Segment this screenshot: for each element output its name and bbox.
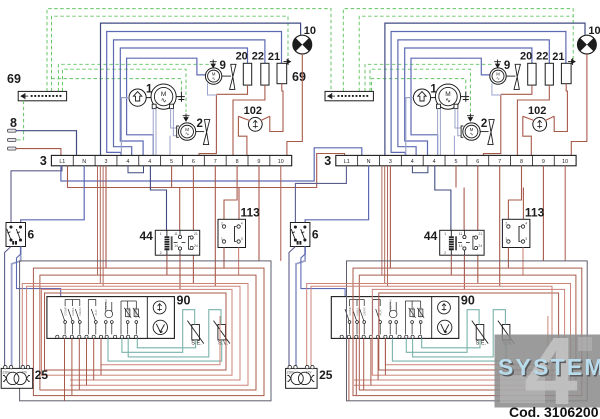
wire strip cell 5 drop' <box>455 166 457 188</box>
earth arrow motor 2 <box>183 114 190 122</box>
svg-text:10: 10 <box>304 25 316 37</box>
svg-text:S.E.: S.E. <box>191 341 202 347</box>
svg-text:∿: ∿ <box>185 133 189 138</box>
svg-text:∿: ∿ <box>496 76 500 81</box>
terminal strip 3' <box>336 155 576 165</box>
wire bundle under cell 3' <box>382 166 388 286</box>
svg-text:FANS: FANS <box>71 308 75 316</box>
element 21' <box>561 63 571 83</box>
svg-text:22: 22 <box>252 50 264 62</box>
svg-text:M: M <box>470 127 474 132</box>
wire earth bus G2' (dashed green, right half) <box>359 16 573 91</box>
svg-text:4: 4 <box>433 159 436 165</box>
wire hook under cells 4' <box>412 166 428 173</box>
wire strip L1 to switch 6 (purple) <box>11 166 62 223</box>
svg-text:8: 8 <box>10 116 17 130</box>
wire element 21 to thermostat 102 (brown) <box>270 84 283 132</box>
wire transformer 12V feed a <box>22 284 248 386</box>
thermostat 102 leads <box>238 116 269 120</box>
wire switch 6 to transformer (gray thick) <box>12 247 21 367</box>
earth cross at motor 1 <box>176 92 185 102</box>
lamp 10 <box>293 35 312 54</box>
door switch 6 <box>6 223 26 247</box>
element 20 <box>243 63 251 85</box>
svg-text:3: 3 <box>389 159 392 165</box>
arrow to ground bus <box>284 58 291 65</box>
svg-text:10: 10 <box>562 159 568 165</box>
fan blades 2 <box>203 120 209 145</box>
svg-text:25: 25 <box>35 368 49 382</box>
wire relay 44 contact down <box>179 255 181 289</box>
svg-text:12 TH6: 12 TH6 <box>388 299 392 309</box>
wire bracket drop to strip (gray) <box>169 136 171 156</box>
wire strip N to switch 6' (blue) <box>305 166 369 223</box>
sensor S.E.' <box>476 325 484 340</box>
wire pump-motor link' <box>431 97 436 99</box>
wire motor 2 fan link' <box>480 131 488 133</box>
wire motor 1 to motor 2 bracket (gray) <box>171 109 177 128</box>
wire lamp 10 to strip cell 10 (brown) <box>287 54 302 155</box>
wire harness loop brown 3 <box>40 275 256 390</box>
svg-text:PROBE: PROBE <box>127 307 131 318</box>
logo SYSTEM watermark <box>495 318 600 419</box>
wire earth bus G2 (dashed green) to arrow 69 <box>52 16 289 91</box>
wire harness loop pink 4 (right) <box>372 289 564 375</box>
svg-text:1: 1 <box>146 84 153 96</box>
bracket at motor 2' <box>461 126 463 137</box>
wire harness loop brown 3 (right) <box>359 275 576 390</box>
wire pump-motor link <box>146 97 151 99</box>
wire harness loop brown 5 <box>45 293 227 370</box>
wire lamp 10 to strip cell 10 (brown) <box>571 54 587 155</box>
svg-text:L1: L1 <box>344 159 350 165</box>
svg-text:6: 6 <box>476 159 479 165</box>
controller 90 indicator circles' <box>438 301 451 314</box>
fan blades 9' <box>514 64 520 89</box>
wire strip cell 4 to relay 44 <box>150 166 166 231</box>
controller 90 internals <box>61 300 140 335</box>
wire strip N to switch 6 (blue) <box>21 166 84 223</box>
svg-text:7: 7 <box>214 159 217 165</box>
wire strip cell 3 drop <box>105 166 107 268</box>
svg-text:44: 44 <box>140 229 154 243</box>
svg-text:M: M <box>185 127 189 132</box>
svg-text:21: 21 <box>194 232 198 236</box>
svg-text:PROBE: PROBE <box>419 307 423 318</box>
wire transformer 12V feed a (right) <box>307 284 571 386</box>
svg-text:3: 3 <box>40 154 47 168</box>
svg-text:12 TH6: 12 TH6 <box>104 299 108 309</box>
wire motor 1 to strip pair (gray) <box>437 109 439 156</box>
wire earth branch G5 to motor 1 <box>52 79 182 92</box>
wire harness loop pink 4 <box>42 289 233 375</box>
svg-text:20: 20 <box>520 50 532 62</box>
wire strip cell 10 drop' <box>564 166 566 261</box>
svg-text:∿: ∿ <box>445 97 451 104</box>
svg-text:7: 7 <box>498 159 501 165</box>
earth cross at motor 1' <box>461 92 470 102</box>
wire switch 113 down-left <box>223 248 225 269</box>
wire pump to strip (gray) <box>406 98 414 156</box>
svg-text:L1: L1 <box>59 159 65 165</box>
wire controller 90 supply drops <box>65 338 102 400</box>
element 22 <box>261 63 269 85</box>
wire harness inner pink (right) <box>385 316 548 365</box>
svg-text:21: 21 <box>268 51 280 63</box>
svg-text:11: 11 <box>174 232 178 236</box>
wire terminal 8 phase to strip L1 <box>16 149 61 156</box>
relay 44 contacts <box>174 230 194 255</box>
motor M1' <box>435 84 460 109</box>
wire hook under cells 4 <box>128 166 144 173</box>
wire switch 6 to controller 90 (blue) <box>17 247 61 297</box>
wire terminal 8 line to strip N <box>16 131 77 156</box>
wire strip L1 to switch 6' (purple) <box>295 166 346 223</box>
svg-text:14: 14 <box>459 244 463 248</box>
wire probe S.V. return (teal)' <box>392 338 506 361</box>
svg-text:4: 4 <box>241 222 243 226</box>
svg-text:1: 1 <box>221 237 223 241</box>
svg-text:COMP: COMP <box>348 307 352 316</box>
wire element 20 to strip cell 6 (brown) <box>501 85 532 94</box>
pump P' arrow circle <box>413 89 430 106</box>
ground bar 69' <box>325 91 373 100</box>
motor M2' <box>463 123 480 140</box>
element 21 <box>277 63 287 83</box>
wire brown phase link to right strip <box>68 154 345 188</box>
wire relay 44 coil down' <box>450 255 452 275</box>
wire blue feed B1 to element 21 <box>107 32 282 156</box>
earth arrow motor 2' <box>467 114 474 122</box>
svg-text:AUX: AUX <box>94 309 98 315</box>
wire navy feed to lamp 10' <box>385 23 585 155</box>
motor M9 <box>205 68 221 84</box>
motor M2 <box>178 123 195 140</box>
wire bundle under cell 3 <box>98 166 104 286</box>
wire strip cell 6 drop' <box>477 166 479 284</box>
wire switch 6 to controller 90' (blue) <box>301 247 345 297</box>
svg-text:9: 9 <box>504 60 510 72</box>
wire harness loop brown 2 (right) <box>353 268 582 396</box>
wire earth branch G5' to motor 1' <box>372 79 466 92</box>
wire motor 9 fan link <box>222 75 231 77</box>
ground bar 69 <box>18 91 66 100</box>
svg-text:4: 4 <box>148 159 151 165</box>
wire strip cell 7 drop' <box>499 166 501 286</box>
motor 1 terminal boxes <box>152 104 156 108</box>
relay 44 <box>155 230 199 255</box>
fan blades 9 <box>230 64 236 89</box>
wire switch 6 to transformer (dark) <box>289 247 295 367</box>
svg-text:11: 11 <box>459 232 463 236</box>
switch 113 <box>218 219 246 247</box>
svg-text:12V: 12V <box>306 371 313 375</box>
svg-text:113: 113 <box>241 206 261 220</box>
arrow to ground bus' <box>568 58 575 65</box>
wire switch 113 down-right <box>238 248 240 276</box>
wire element 22 to strip cell 8 (brown) <box>233 85 265 155</box>
svg-text:∿: ∿ <box>470 133 474 138</box>
svg-text:COMP: COMP <box>64 307 68 316</box>
svg-text:PROBE: PROBE <box>134 307 138 318</box>
switch 113' <box>502 219 530 247</box>
wire probe S.V. return (teal) <box>108 338 222 361</box>
controller 90 input rail <box>60 297 62 335</box>
svg-text:10: 10 <box>278 159 284 165</box>
wire earth branch G3' to fan motor 9' <box>365 64 494 91</box>
wire probe S.V. loop (teal) <box>128 310 221 357</box>
fan blades 2' <box>488 120 494 145</box>
controller board 90 <box>47 297 174 339</box>
wire to relay 44 coil <box>179 188 181 231</box>
wire element 21 to thermostat 102 (brown) <box>554 84 567 132</box>
svg-text:3: 3 <box>525 237 527 241</box>
wire thermostat 102 left to strip (brown) <box>238 116 247 155</box>
svg-text:6: 6 <box>192 159 195 165</box>
svg-text:2: 2 <box>481 118 487 130</box>
wire motor 1 to strip pair (gray) <box>152 109 154 156</box>
wire strip cell 10 drop <box>280 166 282 261</box>
svg-text:9: 9 <box>542 159 545 165</box>
wire element 22 to strip cell 8 (brown) <box>517 85 549 155</box>
svg-text:2: 2 <box>197 118 203 130</box>
svg-text:230V: 230V <box>2 371 10 375</box>
svg-text:8: 8 <box>236 159 239 165</box>
wire bracket drop to strip (gray) <box>453 136 455 156</box>
wire fan motor 2 to strip cell 6 (brown) <box>199 95 216 155</box>
wire ground bar to terminal 8 (dashed green) <box>17 101 24 140</box>
controller 90 input rail' <box>344 297 346 335</box>
motor M1 <box>151 84 176 109</box>
wire blue feed B4' to fan motor 9' <box>411 58 490 155</box>
svg-text:8: 8 <box>520 159 523 165</box>
wire fan motor 2 to strip cell 6 (brown) <box>483 95 500 155</box>
wire transformer 12V feed b (right) <box>311 286 552 380</box>
svg-text:2: 2 <box>444 251 446 255</box>
svg-text:2: 2 <box>505 222 507 226</box>
sensor S.V.' <box>502 325 510 340</box>
svg-text:230V: 230V <box>287 371 295 375</box>
thermostat 102 <box>248 117 262 131</box>
bracket at motor 2 <box>177 126 179 137</box>
wire switch 113 down-left' <box>507 248 509 269</box>
connector 8 terminal stubs <box>8 129 17 150</box>
wire motor 1 to motor 2 bracket (gray) <box>455 109 461 128</box>
wire navy feed to lamp 10 <box>101 23 301 155</box>
svg-text:3: 3 <box>324 154 331 168</box>
wire transformer 12V feed b <box>27 286 240 380</box>
transformer 25 <box>1 368 33 388</box>
svg-text:∿: ∿ <box>212 76 216 81</box>
controller 90 terminal row' <box>340 335 422 338</box>
svg-text:2: 2 <box>160 251 162 255</box>
wire switch 6 to transformer (gray thick) <box>296 247 305 367</box>
svg-text:113: 113 <box>525 206 545 220</box>
wire probe S.E. return (teal)' <box>422 338 480 347</box>
transformer 25' <box>286 368 318 388</box>
svg-text:∿: ∿ <box>161 97 167 104</box>
svg-text:N: N <box>367 159 371 165</box>
wire earth branch G3 to fan motor 9 <box>58 64 209 91</box>
wire pump to strip (gray) <box>121 98 129 156</box>
terminal strip 3 <box>51 155 291 165</box>
door switch 6' <box>290 223 310 247</box>
thermostat 102 leads' <box>523 116 554 120</box>
wire strip cell 8 to switch 113 <box>224 166 237 220</box>
motor 1 terminal boxes' <box>437 104 441 108</box>
relay 44' <box>440 230 484 255</box>
svg-text:1: 1 <box>505 237 507 241</box>
wire harness loop dark outer <box>20 261 271 401</box>
wire probe S.E. loop (teal) <box>122 310 195 353</box>
svg-text:9: 9 <box>257 159 260 165</box>
wire blue feed B3 to element 20 <box>120 48 247 155</box>
wire to switch 113 right' <box>522 188 524 220</box>
svg-text:69: 69 <box>292 70 306 84</box>
svg-text:9: 9 <box>220 60 226 72</box>
wire earth branch G4 to fan motor 2 <box>63 69 187 112</box>
element 22' <box>545 63 553 85</box>
wire strip cell 5 drop <box>171 166 173 188</box>
svg-text:102: 102 <box>528 105 546 117</box>
wire strip cell 9 drop' <box>542 166 544 261</box>
wire probe S.V. loop (teal)' <box>413 310 506 357</box>
wire earth bus G1' (dashed green, right half) <box>343 9 573 92</box>
wire to relay 44 coil' <box>463 188 465 231</box>
svg-text:20: 20 <box>236 50 248 62</box>
relay 44 contacts' <box>458 230 478 255</box>
wire motor 9 bottom drop (gray) <box>492 83 501 95</box>
thermostat 102' <box>533 117 547 131</box>
wire strip cell 3 drop' <box>389 166 391 268</box>
wire harness inner pink <box>101 316 220 365</box>
svg-text:21: 21 <box>478 232 482 236</box>
earth arrow motor 9' <box>494 60 501 68</box>
sensor S.E. <box>192 325 200 340</box>
svg-text:1: 1 <box>160 232 162 236</box>
svg-text:1: 1 <box>430 84 437 96</box>
svg-text:90: 90 <box>461 294 475 308</box>
wire blue feed B2' to element 22' <box>398 40 549 155</box>
svg-text:24: 24 <box>194 244 198 248</box>
controller 90 indicator circles <box>153 301 166 314</box>
wire harness loop brown 2 <box>33 268 264 396</box>
svg-text:SYSTEM: SYSTEM <box>498 354 600 380</box>
svg-text:4: 4 <box>411 159 414 165</box>
svg-text:69: 69 <box>7 72 21 86</box>
wire relay 44 coil down <box>166 255 168 275</box>
motor M9' <box>490 68 506 84</box>
wire strip cell 9 drop <box>258 166 260 261</box>
wire harness loop brown 5 (right) <box>379 293 559 370</box>
svg-text:Cod. 3106200: Cod. 3106200 <box>509 404 599 419</box>
wire earth bus G1 (dashed green) to right-half ground bar <box>47 9 331 92</box>
svg-text:PROBE: PROBE <box>411 307 415 318</box>
wire controller 90 supply drops' <box>349 338 386 400</box>
svg-text:1: 1 <box>444 232 446 236</box>
svg-text:21: 21 <box>552 51 564 63</box>
svg-text:4: 4 <box>525 222 527 226</box>
svg-text:25: 25 <box>319 368 333 382</box>
svg-text:24: 24 <box>478 244 482 248</box>
wire strip cell 8 to switch 113' <box>508 166 521 220</box>
svg-text:90: 90 <box>177 294 191 308</box>
controller board 90' <box>331 297 459 339</box>
wire strip cell 4 to relay 44' <box>435 166 451 231</box>
svg-text:10: 10 <box>588 25 600 37</box>
svg-text:2: 2 <box>221 222 223 226</box>
svg-text:14: 14 <box>174 244 178 248</box>
svg-text:4: 4 <box>126 159 129 165</box>
element 20' <box>528 63 536 85</box>
wire strip cell 6 drop <box>192 166 194 284</box>
wire motor 9 bottom drop (gray) <box>208 83 217 95</box>
wire earth branch G4' to fan motor 2' <box>370 69 470 112</box>
wire switch 6 to transformer (dark) <box>5 247 11 367</box>
svg-text:5: 5 <box>454 159 457 165</box>
svg-text:44: 44 <box>424 229 438 243</box>
svg-text:3: 3 <box>105 159 108 165</box>
controller 90 terminal row <box>56 335 138 338</box>
wire probe S.E. loop (teal)' <box>406 310 479 353</box>
wire blue feed B4 to fan motor 9 <box>127 58 206 155</box>
wire thermostat 102 left to strip (brown) <box>523 116 532 155</box>
svg-text:DEFR: DEFR <box>78 307 82 316</box>
wire probe S.E. return (teal) <box>137 338 195 347</box>
svg-text:5: 5 <box>170 159 173 165</box>
svg-text:12V: 12V <box>21 371 28 375</box>
wire blue feed B2 to element 22 <box>114 40 265 155</box>
earth arrow motor 9 <box>210 60 217 68</box>
wire blue feed B3' to element 20' <box>405 48 532 155</box>
svg-text:22: 22 <box>536 50 548 62</box>
wire relay 44 contact down' <box>463 255 465 289</box>
svg-text:3: 3 <box>241 237 243 241</box>
wire motor 2 fan link <box>196 131 204 133</box>
wire strip cell 7 drop <box>214 166 216 286</box>
pump P arrow circle <box>129 89 146 106</box>
sensor S.V. <box>218 325 226 340</box>
wire to switch 113 right <box>238 188 240 220</box>
svg-text:6: 6 <box>28 228 35 242</box>
svg-text:102: 102 <box>244 105 262 117</box>
svg-text:N: N <box>82 159 86 165</box>
controller 90 internals' <box>345 300 424 335</box>
svg-text:6: 6 <box>312 228 319 242</box>
svg-text:DEFR: DEFR <box>363 307 367 316</box>
lamp 10' <box>578 35 597 54</box>
wire blue feed B1' to element 21' <box>391 32 566 156</box>
wire switch 113 down-right' <box>522 248 524 276</box>
wire blue neutral link to right strip <box>61 148 362 181</box>
wire harness loop dark outer (right) <box>347 261 588 401</box>
wire motor 9 fan link' <box>506 75 515 77</box>
svg-text:S.E.: S.E. <box>476 341 487 347</box>
wire element 20 to strip cell 6 (brown) <box>216 85 247 94</box>
